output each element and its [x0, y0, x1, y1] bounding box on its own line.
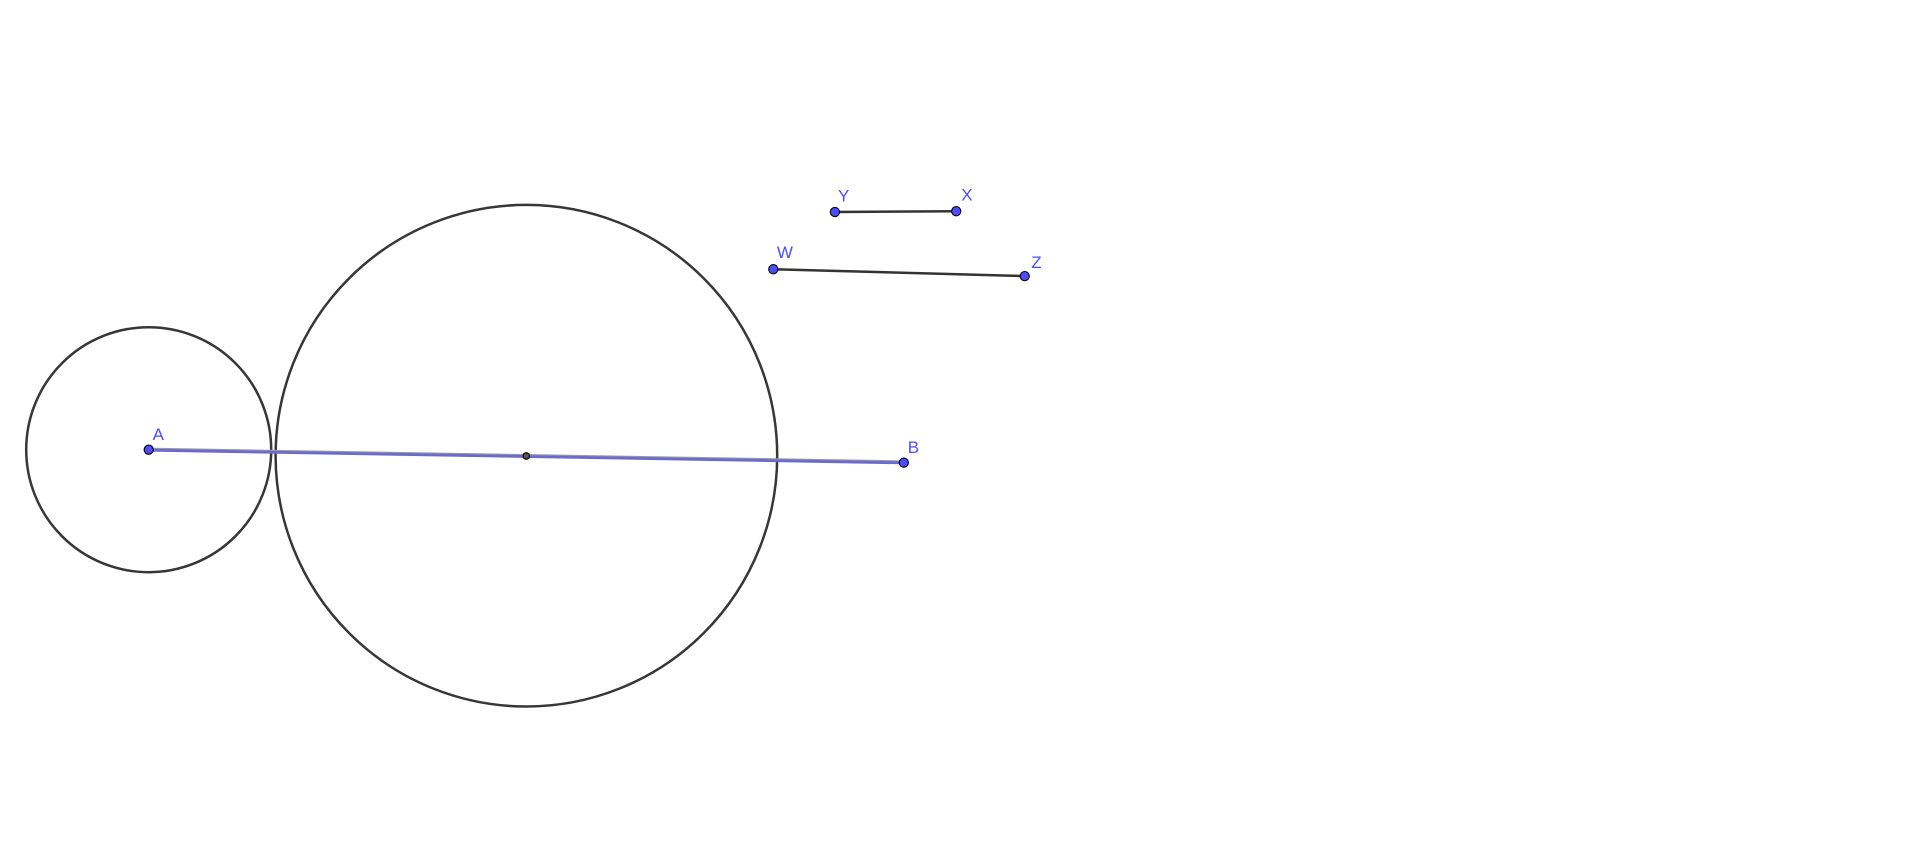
svg-text:A: A — [153, 425, 165, 444]
wire gray segment along AB — [153, 449, 902, 462]
svg-text:X: X — [961, 185, 972, 204]
svg-text:W: W — [777, 243, 793, 262]
node center of large circle (gray midpoint) — [523, 453, 529, 459]
point B — [899, 458, 908, 467]
point Z — [1020, 272, 1029, 281]
point A — [144, 445, 153, 454]
circle c (small circle centered at A) — [26, 327, 271, 572]
segment AB (blue) — [149, 450, 904, 463]
point W — [769, 265, 778, 274]
svg-text:B: B — [908, 438, 919, 457]
segment YX — [835, 210, 956, 213]
circle d (large circle) — [276, 205, 778, 707]
point X — [952, 207, 961, 216]
segment WZ — [773, 269, 1024, 276]
svg-text:Z: Z — [1031, 253, 1041, 272]
point Y — [830, 207, 839, 216]
svg-text:Y: Y — [838, 187, 849, 206]
